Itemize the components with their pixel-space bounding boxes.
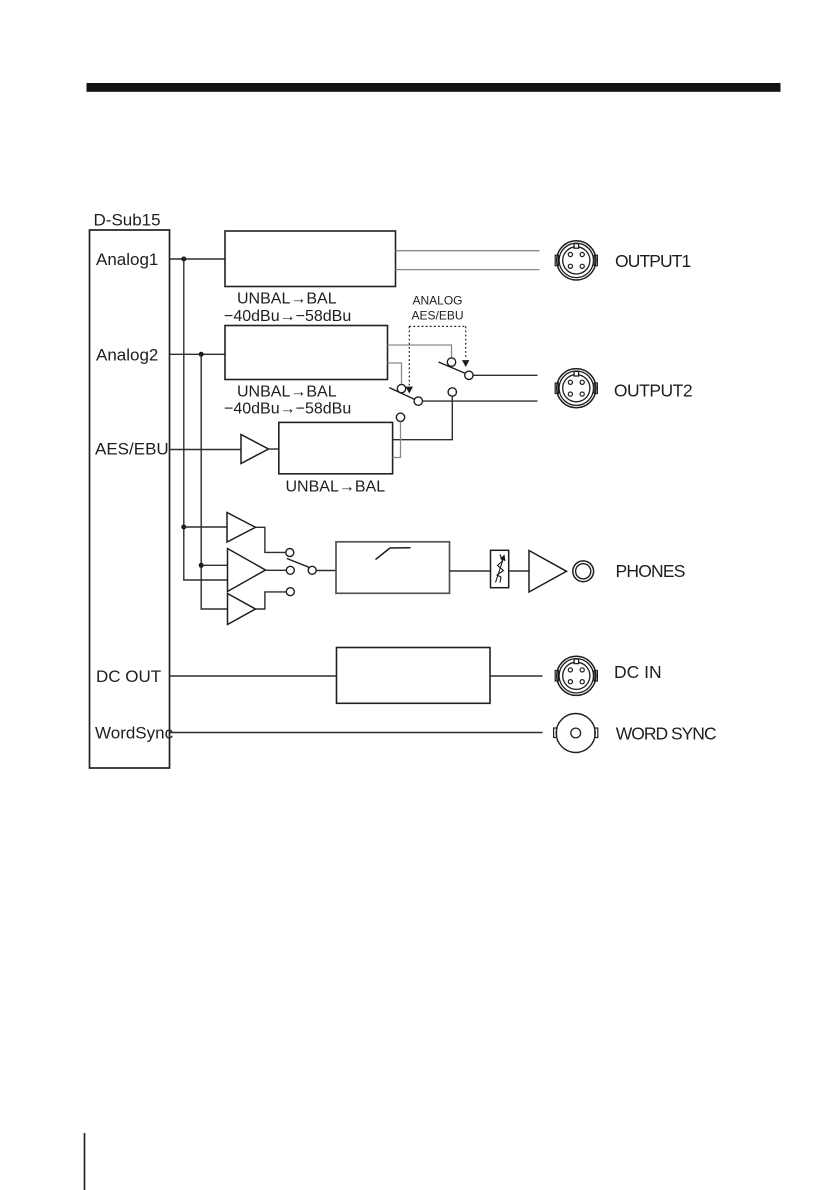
wire U3 output to S2 AES contact <box>393 422 401 458</box>
svg-text:AES/EBU: AES/EBU <box>411 308 463 322</box>
wire S3 pole to filter U4 <box>316 570 336 572</box>
svg-text:OUTPUT1: OUTPUT1 <box>615 251 691 271</box>
top rule bar <box>87 83 781 92</box>
wire Analog1 to HP amp A1 <box>184 526 227 528</box>
wire A1 output to selector <box>256 527 286 552</box>
wire WordSync to WORD SYNC <box>170 732 543 734</box>
switch S1 contact E (AES) <box>448 388 456 396</box>
attenuator arrow <box>496 560 504 583</box>
wire DC OUT to U5 <box>170 675 337 677</box>
arrowhead control left <box>406 387 413 394</box>
switch S1 contact A (analog) <box>447 358 455 366</box>
junction dot Analog1 HP branch <box>181 525 186 530</box>
svg-text:−40dBu→−58dBu: −40dBu→−58dBu <box>224 401 351 418</box>
svg-text:PHONES: PHONES <box>616 561 685 581</box>
amplifier U2 (UNBAL to BAL, Analog2) <box>225 326 388 380</box>
svg-text:AES/EBU: AES/EBU <box>95 440 169 459</box>
dotted control line right <box>465 326 467 359</box>
switch S2 arm <box>389 388 414 400</box>
svg-text:Analog2: Analog2 <box>96 346 158 365</box>
connector J1 OUTPUT1 <box>555 241 597 280</box>
svg-text:DC IN: DC IN <box>614 662 662 682</box>
connector J2 OUTPUT2 <box>555 369 597 408</box>
HP amp A5 (CH2) <box>228 594 256 625</box>
svg-text:D-Sub15: D-Sub15 <box>94 211 161 230</box>
HP amp A2 (mix) <box>228 549 266 592</box>
attenuator VR1 (level) <box>491 550 509 587</box>
switch S2 contact C (analog) <box>397 384 405 392</box>
wire U3 output to S1 AES contact <box>393 396 453 439</box>
selector S3 pole <box>308 566 316 574</box>
wire A5 output to selector <box>256 592 287 609</box>
wire U1 output hot to OUTPUT1 <box>396 250 540 252</box>
svg-text:Analog1: Analog1 <box>96 250 158 269</box>
switch S2 contact F (AES) <box>396 413 404 421</box>
wire A3 to U3 <box>269 448 280 450</box>
filter U4 (HP response) <box>336 542 450 594</box>
svg-text:DC OUT: DC OUT <box>96 667 161 686</box>
wire VR1 to HP amp A4 <box>509 570 529 572</box>
connector J5 WORD SYNC (BNC) <box>554 714 598 753</box>
wire AES/EBU to buffer A3 <box>170 449 242 451</box>
connector J4 DC IN <box>555 656 597 695</box>
svg-text:UNBAL→BAL: UNBAL→BAL <box>286 479 386 496</box>
selector S3 contact MIX <box>286 566 294 574</box>
DC-DC block U5 <box>337 648 491 704</box>
receiver U3 (AES/EBU UNBAL to BAL) <box>279 422 393 473</box>
wire U4 to attenuator VR1 <box>450 570 491 572</box>
connector block D-Sub15 <box>90 230 170 768</box>
filter response icon <box>376 548 411 560</box>
wire U5 to DC IN <box>490 675 543 677</box>
wire U2 output to switch S2 analog contact <box>388 363 402 384</box>
wire Analog2 to U2 <box>170 353 226 355</box>
arrowhead control right <box>462 360 469 367</box>
switch S1 arm <box>439 362 466 373</box>
page edge marker <box>84 1133 86 1190</box>
selector S3 arm <box>287 559 309 568</box>
svg-text:WORD SYNC: WORD SYNC <box>616 724 716 744</box>
svg-text:OUTPUT2: OUTPUT2 <box>614 381 692 401</box>
wire U1 output cold to OUTPUT1 <box>396 269 540 271</box>
junction dot Analog1 <box>181 257 186 262</box>
wire S1 pole to OUTPUT2 hot <box>473 374 537 376</box>
buffer amp A3 (AES/EBU) <box>241 435 269 464</box>
wire Analog1 to U1 <box>170 258 226 260</box>
wire Analog2 vertical drop <box>201 354 227 609</box>
svg-text:−40dBu→−58dBu: −40dBu→−58dBu <box>224 308 351 325</box>
wire Analog2 to HP amp A2 <box>201 564 227 566</box>
dotted control line left <box>408 326 410 385</box>
HP amp A1 (CH1) <box>227 513 256 543</box>
amplifier U1 (UNBAL to BAL, Analog1) <box>225 231 396 287</box>
wire Analog1 vertical drop <box>184 259 227 580</box>
switch S1 pole B <box>465 371 473 379</box>
phone jack J3 <box>573 561 594 582</box>
switch S2 pole D <box>414 397 422 405</box>
svg-text:UNBAL→BAL: UNBAL→BAL <box>237 384 337 401</box>
svg-text:WordSync: WordSync <box>95 724 174 743</box>
junction dot Analog2 <box>199 352 204 357</box>
wire A2 output to selector <box>266 569 287 571</box>
attenuator zigzag <box>497 555 504 583</box>
wire S2 pole to OUTPUT2 cold <box>423 400 538 402</box>
selector S3 contact CH1 <box>286 549 294 557</box>
junction dot Analog2 HP branch <box>199 563 204 568</box>
wire U2 output to switch S1 analog contact <box>388 345 452 358</box>
selector S3 contact CH2 <box>286 588 294 596</box>
svg-text:UNBAL→BAL: UNBAL→BAL <box>237 291 337 308</box>
dotted control line top <box>409 325 465 327</box>
svg-text:ANALOG: ANALOG <box>412 293 462 307</box>
headphone amp A4 <box>529 551 567 593</box>
